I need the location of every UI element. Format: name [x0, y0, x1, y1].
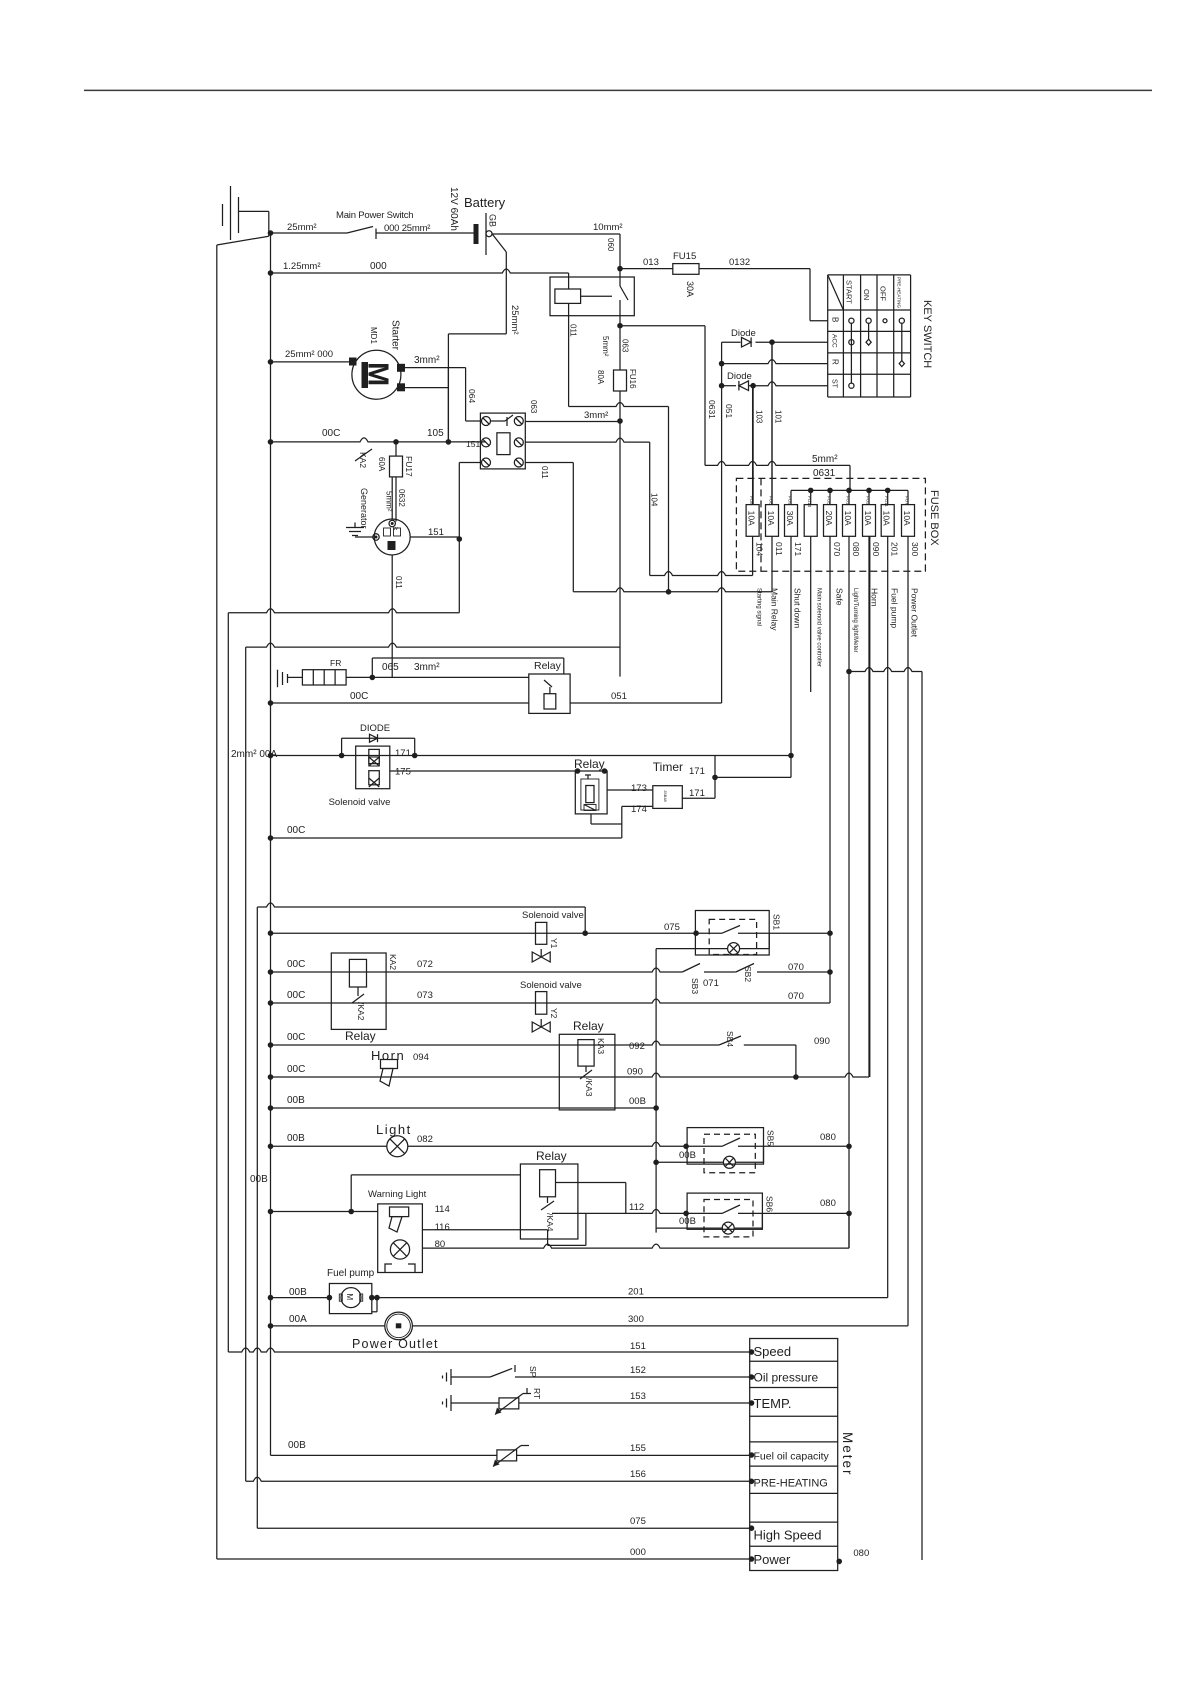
- svg-text:171: 171: [689, 766, 705, 777]
- svg-text:080: 080: [853, 1548, 869, 1559]
- svg-text:25mm²: 25mm²: [509, 305, 520, 335]
- svg-text:063: 063: [529, 400, 538, 414]
- svg-text:171: 171: [793, 542, 803, 556]
- svg-text:/KA4: /KA4: [545, 1213, 555, 1232]
- svg-text:080: 080: [820, 1198, 836, 1209]
- svg-text:Starting signal: Starting signal: [756, 588, 762, 626]
- svg-text:Relay: Relay: [536, 1149, 567, 1163]
- svg-text:112: 112: [629, 1202, 644, 1213]
- svg-text:SB3: SB3: [690, 978, 700, 994]
- svg-text:063: 063: [621, 339, 630, 353]
- svg-text:082: 082: [417, 1134, 433, 1145]
- svg-text:060: 060: [606, 238, 615, 252]
- svg-text:20A: 20A: [824, 511, 834, 526]
- svg-text:Generator: Generator: [359, 488, 369, 529]
- svg-text:30A: 30A: [685, 281, 695, 297]
- svg-text:300: 300: [910, 542, 920, 556]
- svg-text:Relay: Relay: [534, 660, 562, 672]
- svg-text:070: 070: [788, 962, 804, 973]
- svg-text:070: 070: [832, 542, 842, 556]
- svg-text:171: 171: [689, 788, 705, 799]
- svg-text:151: 151: [466, 439, 480, 449]
- svg-text:094: 094: [413, 1052, 429, 1063]
- svg-text:KA3: KA3: [596, 1038, 606, 1054]
- svg-text:/KA3: /KA3: [584, 1078, 594, 1097]
- svg-text:FU9: FU9: [788, 496, 793, 505]
- svg-text:10A: 10A: [746, 511, 756, 526]
- svg-text:Speed: Speed: [754, 1344, 792, 1359]
- svg-text:ACC: ACC: [831, 334, 838, 348]
- svg-text:00C: 00C: [287, 1064, 305, 1075]
- svg-text:065: 065: [382, 662, 399, 673]
- svg-text:075: 075: [630, 1516, 646, 1527]
- svg-text:151: 151: [428, 527, 444, 538]
- svg-text:FU10: FU10: [807, 496, 812, 508]
- svg-text:Power: Power: [754, 1552, 792, 1567]
- svg-text:00B: 00B: [250, 1174, 268, 1185]
- svg-text:12V 60Ah: 12V 60Ah: [448, 187, 459, 231]
- svg-text:Power Outlet: Power Outlet: [910, 588, 920, 638]
- svg-text:3mm²: 3mm²: [414, 355, 440, 366]
- svg-text:Horn: Horn: [371, 1048, 405, 1063]
- svg-text:075: 075: [664, 922, 680, 933]
- svg-text:GB: GB: [488, 214, 498, 227]
- svg-text:JSB48: JSB48: [663, 790, 668, 803]
- svg-text:SP: SP: [528, 1366, 538, 1378]
- svg-text:60A: 60A: [377, 457, 386, 472]
- svg-text:B: B: [831, 317, 840, 322]
- svg-text:Warning Light: Warning Light: [368, 1189, 427, 1200]
- svg-text:103: 103: [755, 410, 764, 424]
- svg-text:KA2: KA2: [358, 452, 368, 468]
- svg-text:153: 153: [630, 1391, 646, 1402]
- svg-text:Horn: Horn: [870, 588, 880, 607]
- svg-text:00C: 00C: [287, 990, 305, 1001]
- svg-text:092: 092: [629, 1041, 645, 1052]
- svg-text:FU11: FU11: [884, 496, 889, 507]
- svg-text:3mm²: 3mm²: [414, 662, 440, 673]
- svg-text:Meter: Meter: [840, 1432, 855, 1477]
- svg-text:Main Relay: Main Relay: [770, 588, 780, 631]
- svg-text:25mm² 000: 25mm² 000: [285, 349, 333, 360]
- svg-text:070: 070: [788, 991, 804, 1002]
- svg-text:051: 051: [611, 691, 627, 702]
- svg-text:FU2: FU2: [866, 496, 871, 505]
- svg-text:/KA2: /KA2: [356, 1002, 366, 1021]
- svg-text:00B: 00B: [287, 1095, 305, 1106]
- svg-text:Starter: Starter: [390, 320, 401, 351]
- svg-text:Timer: Timer: [653, 760, 683, 774]
- svg-text:10A: 10A: [882, 511, 892, 526]
- svg-text:SB1: SB1: [772, 914, 782, 930]
- svg-text:SB2: SB2: [743, 966, 753, 982]
- svg-text:FU16: FU16: [628, 369, 637, 389]
- svg-text:175: 175: [395, 767, 411, 778]
- svg-text:00B: 00B: [679, 1216, 696, 1227]
- svg-text:10A: 10A: [766, 511, 776, 526]
- svg-text:10A: 10A: [843, 511, 853, 526]
- svg-text:011: 011: [394, 576, 403, 589]
- svg-text:011: 011: [569, 324, 578, 337]
- svg-text:0632: 0632: [397, 489, 406, 507]
- svg-text:Fuel pump: Fuel pump: [890, 588, 900, 628]
- svg-text:SB6: SB6: [765, 1196, 775, 1212]
- svg-text:Diode: Diode: [727, 371, 752, 382]
- svg-text:10A: 10A: [902, 511, 912, 526]
- svg-text:300: 300: [628, 1314, 644, 1325]
- svg-text:152: 152: [630, 1365, 646, 1376]
- svg-text:Battery: Battery: [464, 195, 506, 210]
- svg-text:00B: 00B: [629, 1096, 646, 1107]
- svg-text:071: 071: [703, 978, 719, 989]
- svg-text:10A: 10A: [863, 511, 873, 526]
- svg-text:00C: 00C: [322, 428, 340, 439]
- svg-text:101: 101: [774, 410, 783, 424]
- svg-text:011: 011: [774, 542, 784, 556]
- svg-text:064: 064: [467, 389, 477, 403]
- svg-text:Oil pressure: Oil pressure: [754, 1371, 819, 1385]
- svg-text:25mm²: 25mm²: [287, 222, 317, 233]
- svg-text:0631: 0631: [707, 400, 717, 419]
- svg-text:Shut down: Shut down: [793, 588, 803, 628]
- svg-text:KA2: KA2: [388, 954, 398, 970]
- svg-text:SB5: SB5: [766, 1130, 776, 1146]
- svg-text:174: 174: [631, 804, 647, 815]
- svg-text:173: 173: [631, 783, 647, 794]
- svg-text:155: 155: [630, 1443, 646, 1454]
- svg-text:00B: 00B: [289, 1287, 307, 1298]
- svg-text:3mm²: 3mm²: [584, 410, 608, 421]
- svg-text:080: 080: [820, 1132, 836, 1143]
- svg-text:000 25mm²: 000 25mm²: [384, 223, 430, 234]
- svg-text:FU17: FU17: [404, 456, 414, 477]
- svg-text:Solenoid valve: Solenoid valve: [520, 980, 582, 991]
- svg-text:072: 072: [417, 959, 433, 970]
- svg-text:116: 116: [435, 1222, 450, 1233]
- svg-text:Relay: Relay: [345, 1029, 376, 1043]
- svg-text:080: 080: [851, 542, 861, 556]
- svg-text:OFF: OFF: [879, 286, 888, 301]
- svg-text:105: 105: [427, 428, 444, 439]
- svg-text:Main solenoid valve controller: Main solenoid valve controller: [816, 588, 822, 667]
- svg-text:201: 201: [890, 542, 900, 556]
- svg-text:FU8: FU8: [769, 496, 774, 505]
- svg-text:090: 090: [814, 1036, 830, 1047]
- svg-text:00B: 00B: [287, 1133, 305, 1144]
- svg-text:Diode: Diode: [731, 328, 756, 339]
- svg-text:Y2: Y2: [549, 1008, 559, 1019]
- svg-text:Relay: Relay: [573, 1019, 604, 1033]
- svg-text:KEY SWITCH: KEY SWITCH: [921, 300, 933, 368]
- svg-text:30A: 30A: [785, 511, 795, 526]
- svg-text:114: 114: [435, 1204, 450, 1215]
- svg-text:80A: 80A: [596, 370, 605, 385]
- svg-text:MD1: MD1: [369, 327, 378, 344]
- svg-text:FU5: FU5: [827, 496, 832, 505]
- svg-text:DIODE: DIODE: [360, 723, 390, 734]
- svg-text:Solenoid valve: Solenoid valve: [522, 910, 584, 921]
- svg-text:R: R: [831, 359, 840, 365]
- svg-text:Fuel oil capacity: Fuel oil capacity: [754, 1451, 830, 1463]
- svg-text:051: 051: [724, 404, 734, 418]
- svg-text:2mm² 00A: 2mm² 00A: [231, 749, 277, 760]
- svg-text:011: 011: [540, 466, 549, 479]
- svg-text:156: 156: [630, 1469, 646, 1480]
- svg-text:00C: 00C: [350, 691, 368, 702]
- svg-text:FU1: FU1: [846, 496, 851, 505]
- svg-text:RT: RT: [532, 1388, 542, 1399]
- svg-text:ST: ST: [831, 379, 838, 389]
- svg-text:0631: 0631: [813, 468, 836, 479]
- svg-text:SB4: SB4: [725, 1031, 735, 1047]
- svg-text:171: 171: [395, 748, 411, 759]
- svg-text:104: 104: [650, 493, 659, 507]
- svg-text:5mm²: 5mm²: [812, 454, 838, 465]
- svg-text:Y1: Y1: [549, 938, 559, 949]
- svg-text:PRE-HEATING: PRE-HEATING: [754, 1478, 828, 1490]
- svg-text:Power Outlet: Power Outlet: [352, 1337, 439, 1351]
- svg-text:0132: 0132: [729, 257, 750, 268]
- svg-text:00C: 00C: [287, 825, 305, 836]
- svg-text:201: 201: [628, 1287, 644, 1298]
- svg-text:10mm²: 10mm²: [593, 222, 623, 233]
- svg-text:PRE-HEATING: PRE-HEATING: [897, 277, 902, 308]
- svg-text:FUSE BOX: FUSE BOX: [928, 490, 940, 546]
- svg-text:013: 013: [643, 257, 659, 268]
- svg-text:ON: ON: [862, 289, 871, 300]
- svg-text:090: 090: [627, 1067, 643, 1078]
- svg-text:00B: 00B: [679, 1150, 696, 1161]
- svg-text:M: M: [345, 1294, 354, 1301]
- svg-text:FU7: FU7: [905, 496, 910, 505]
- svg-text:073: 073: [417, 990, 433, 1001]
- svg-text:151: 151: [630, 1341, 646, 1352]
- svg-text:00C: 00C: [287, 1032, 305, 1043]
- svg-text:00A: 00A: [289, 1314, 307, 1325]
- svg-text:000: 000: [370, 261, 387, 272]
- svg-text:090: 090: [871, 542, 881, 556]
- svg-text:Solenoid valve: Solenoid valve: [329, 797, 391, 808]
- svg-text:Main Power Switch: Main Power Switch: [336, 210, 413, 221]
- svg-text:00B: 00B: [288, 1440, 306, 1451]
- svg-text:000: 000: [630, 1547, 646, 1558]
- svg-text:Safe: Safe: [835, 588, 845, 606]
- svg-text:Light/Turning light/Meter: Light/Turning light/Meter: [852, 588, 858, 652]
- svg-text:START: START: [845, 280, 854, 304]
- svg-text:104: 104: [755, 542, 765, 556]
- svg-text:1.25mm²: 1.25mm²: [283, 261, 320, 272]
- svg-text:00C: 00C: [287, 959, 305, 970]
- svg-text:High Speed: High Speed: [754, 1528, 822, 1543]
- svg-text:Light: Light: [376, 1122, 412, 1137]
- svg-text:FU6: FU6: [749, 496, 754, 505]
- svg-text:Fuel pump: Fuel pump: [327, 1268, 375, 1279]
- svg-text:FU15: FU15: [673, 251, 696, 262]
- svg-text:5mm²: 5mm²: [601, 336, 610, 357]
- svg-text:FR: FR: [330, 658, 341, 668]
- svg-text:TEMP.: TEMP.: [754, 1396, 792, 1411]
